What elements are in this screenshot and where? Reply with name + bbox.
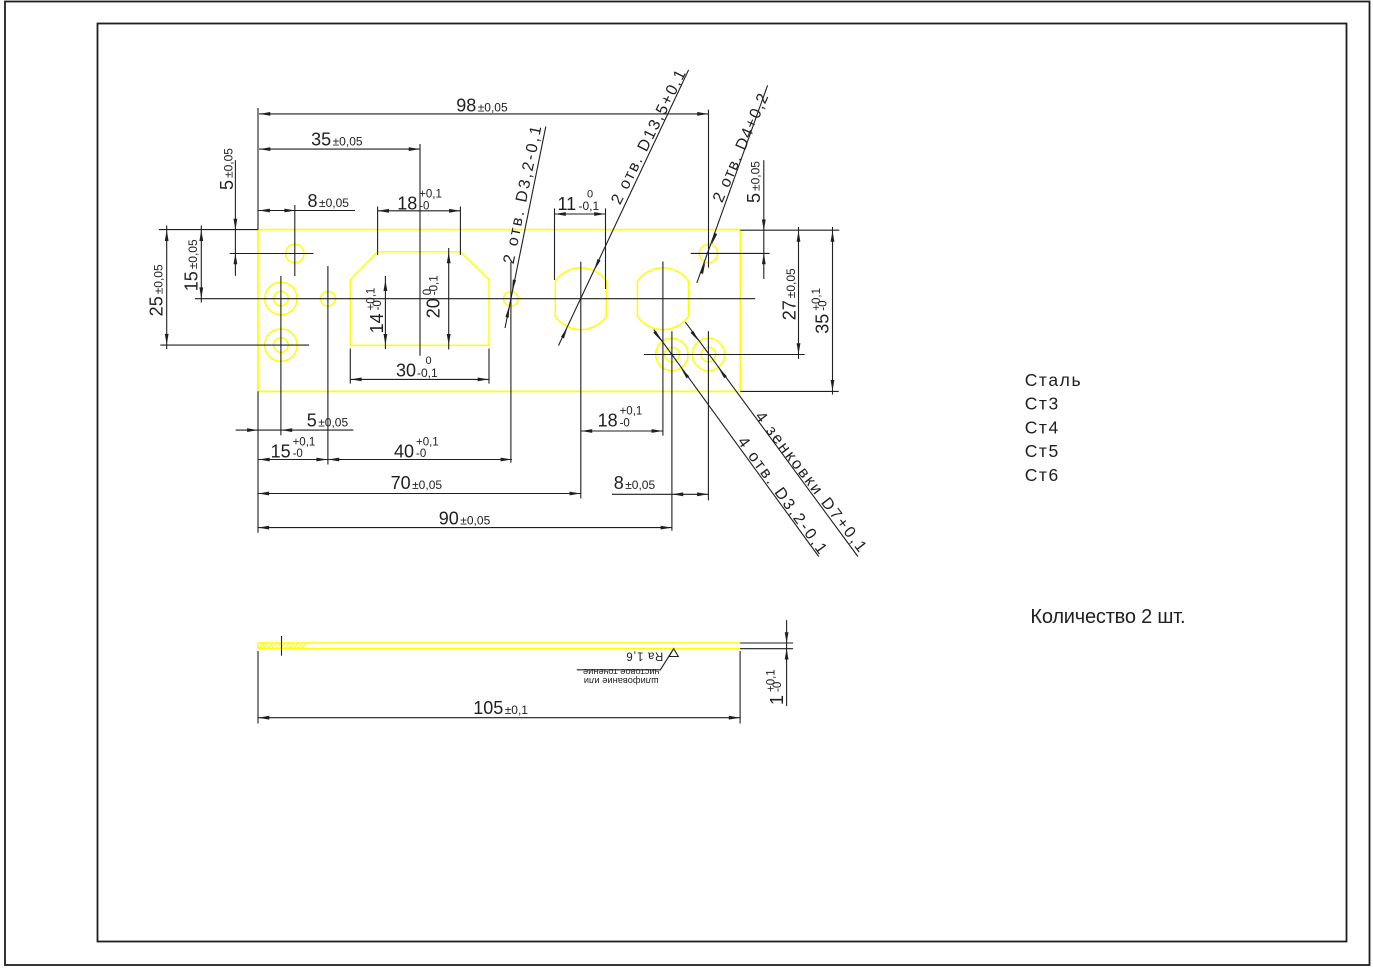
dimension 25±0,05 (vertical) — [147, 226, 169, 350]
svg-text:+0,1: +0,1 — [416, 437, 439, 449]
dimension 5±0,05 (right vertical) — [744, 160, 766, 279]
svg-text:±0,05: ±0,05 — [460, 514, 490, 528]
svg-text:-0,1: -0,1 — [429, 275, 441, 295]
svg-text:Количество 2 шт.: Количество 2 шт. — [1030, 606, 1185, 628]
svg-text:-0,1: -0,1 — [579, 199, 600, 213]
svg-text:-0: -0 — [416, 448, 426, 460]
hole D3.2 #1 — [321, 291, 336, 306]
dimension 105±0,1 — [258, 651, 740, 724]
quantity note — [1030, 606, 1185, 628]
dimension 14+0,1/-0 (cutout) — [366, 276, 388, 349]
extension lines 11-dim flats — [555, 208, 606, 289]
vertical centerline hole D3.2 #2 — [510, 262, 512, 463]
section hatching (side view) — [259, 643, 307, 648]
svg-text:0: 0 — [587, 188, 593, 200]
extension line plate top (right side) — [740, 229, 839, 231]
svg-text:Ст4: Ст4 — [1025, 417, 1060, 437]
hole D13.5 with flats #2 — [637, 268, 688, 330]
countersunk hole left-upper (D7/D3.2) — [265, 282, 297, 314]
dimension 27±0,05 (vertical) — [780, 227, 801, 359]
leader 2 holes D4+0,2 — [697, 85, 773, 283]
svg-text:-0: -0 — [293, 448, 303, 460]
svg-text:11: 11 — [558, 194, 577, 214]
extension line plate left (bottom) — [257, 391, 259, 532]
leader 4 countersinks D7+0,1 — [685, 322, 871, 557]
vertical centerline countersunk right-1 — [671, 331, 673, 531]
countersunk hole left-lower (D7/D3.2) — [265, 329, 297, 361]
svg-text:-0: -0 — [419, 200, 429, 212]
svg-text:+0,1: +0,1 — [293, 437, 316, 449]
svg-text:5: 5 — [744, 193, 764, 203]
svg-text:-0: -0 — [620, 417, 630, 429]
svg-text:+0,1: +0,1 — [419, 189, 442, 201]
centerline through D4 top-right — [691, 252, 770, 254]
dimension 18+0,1/-0 (top) — [378, 189, 461, 214]
extension line plate top (left side) — [159, 229, 258, 231]
hole D4 top-right — [699, 244, 717, 262]
dimension 35+0,1/-0 (vertical) — [811, 227, 834, 395]
dimension 1+0,1/-0 (thickness) — [766, 620, 789, 706]
svg-text:±0,05: ±0,05 — [749, 161, 763, 191]
svg-text:Ст3: Ст3 — [1025, 394, 1060, 414]
centerline lower-left countersunk row — [160, 344, 309, 346]
vertical centerline big hole #2 — [662, 262, 664, 436]
svg-text:±0,1: ±0,1 — [505, 703, 529, 717]
section cut tick — [281, 636, 283, 656]
side view plate strip — [258, 643, 740, 649]
svg-text:Ст5: Ст5 — [1025, 441, 1060, 461]
extension lines 18-dim cutout — [378, 207, 461, 256]
dimension 8±0,05 (top) — [259, 191, 355, 212]
svg-text:15: 15 — [181, 271, 201, 291]
svg-text:-0: -0 — [772, 682, 784, 692]
svg-text:чистовое точение: чистовое точение — [583, 667, 659, 677]
svg-text:±0,05: ±0,05 — [186, 239, 200, 269]
svg-text:±0,05: ±0,05 — [333, 135, 363, 149]
dimension 5±0,05 (bottom) — [236, 411, 354, 432]
vertical centerline cutout — [419, 144, 421, 356]
extension line plate left (top) — [257, 108, 259, 230]
svg-text:-0,1: -0,1 — [417, 366, 438, 380]
svg-text:15: 15 — [271, 441, 291, 461]
svg-text:1: 1 — [767, 695, 787, 705]
svg-text:±0,05: ±0,05 — [318, 416, 348, 430]
svg-text:8: 8 — [614, 473, 624, 493]
svg-text:5: 5 — [217, 180, 237, 190]
svg-text:5: 5 — [307, 411, 317, 431]
svg-text:30: 30 — [396, 361, 416, 381]
svg-text:+0,1: +0,1 — [620, 406, 643, 418]
leader 4 holes D3,2-0,1 — [653, 330, 831, 560]
svg-text:-0: -0 — [818, 300, 830, 310]
vertical centerline hole D3.2 #1 — [327, 266, 329, 465]
svg-text:70: 70 — [391, 473, 411, 493]
svg-text:98: 98 — [456, 95, 476, 115]
material note (steel grades) — [1025, 370, 1083, 485]
extension lines 30-dim — [350, 349, 489, 384]
dimension 35±0,05 — [259, 130, 420, 151]
svg-text:35: 35 — [812, 314, 832, 334]
svg-text:0: 0 — [426, 355, 432, 367]
extension line D4 top-right / 98 dim — [708, 110, 710, 268]
svg-text:±0,05: ±0,05 — [319, 196, 349, 210]
dimension 20 0/-0,1 (cutout) — [422, 248, 451, 350]
svg-text:±0,05: ±0,05 — [784, 268, 798, 298]
plate outline (top view) — [258, 230, 740, 392]
centerline right countersunk row — [644, 354, 805, 356]
svg-text:Сталь: Сталь — [1025, 370, 1083, 390]
dimension 8±0,05 (bottom right) — [612, 473, 708, 496]
dimension 15+0,1/-0 (bottom) — [258, 437, 512, 462]
svg-text:±0,05: ±0,05 — [478, 100, 508, 114]
svg-text:18: 18 — [397, 194, 417, 214]
dimension 15±0,05 (vertical) — [181, 226, 203, 303]
dimension 18+0,1/-0 (bottom) — [581, 406, 663, 433]
svg-text:8: 8 — [308, 191, 318, 211]
svg-text:90: 90 — [439, 509, 459, 529]
extension line plate bottom (right side) — [740, 390, 838, 392]
surface finish symbol Ra 1,6 (rotated 180) — [577, 649, 679, 687]
vertical centerline countersunk right-2 — [707, 331, 709, 500]
leader 2 holes D3,2-0,1 — [501, 122, 546, 328]
main horizontal centerline — [195, 298, 755, 300]
hole D3.2 #2 — [504, 291, 519, 306]
dimension 30-0,1 — [350, 355, 489, 381]
dimension 70±0,05 (bottom) — [258, 473, 581, 496]
svg-text:40: 40 — [394, 441, 414, 461]
svg-text:±0,05: ±0,05 — [625, 478, 655, 492]
leader 2 holes D13,5+0,1 — [559, 66, 691, 346]
dimension 98±0,05 — [259, 95, 708, 116]
svg-text:18: 18 — [598, 411, 618, 431]
svg-text:Ст6: Ст6 — [1025, 465, 1060, 485]
dimension 40+0,1/-0 (bottom) — [328, 437, 511, 462]
svg-text:25: 25 — [147, 296, 167, 316]
countersunk hole right-2 (D7/D3.2) — [692, 338, 724, 370]
central cutout (chamfered slot) — [350, 252, 489, 346]
vertical centerline left countersunk pair — [280, 276, 282, 435]
centerline through D4 top-left — [230, 205, 314, 276]
hole D4 top-left — [286, 244, 304, 262]
svg-text:Ra 1,6: Ra 1,6 — [626, 650, 663, 662]
svg-text:-0: -0 — [372, 300, 384, 310]
dimension 11-0,1 — [555, 188, 606, 216]
dimension 5±0,05 (left vertical) — [217, 148, 237, 276]
vertical centerline big hole #1 — [580, 262, 582, 499]
svg-text:35: 35 — [311, 130, 331, 150]
svg-text:±0,05: ±0,05 — [412, 478, 442, 492]
svg-text:±0,05: ±0,05 — [151, 264, 165, 294]
hole D13.5 with flats #1 — [555, 268, 606, 330]
svg-text:14: 14 — [367, 313, 387, 333]
dimension 90±0,05 (bottom) — [258, 509, 672, 530]
svg-text:27: 27 — [780, 300, 800, 320]
countersunk hole right-1 (D7/D3.2) — [656, 338, 688, 370]
svg-text:±0,05: ±0,05 — [222, 148, 236, 178]
side view extension lines right — [740, 643, 793, 649]
svg-text:20: 20 — [423, 298, 443, 318]
svg-text:105: 105 — [473, 698, 503, 718]
